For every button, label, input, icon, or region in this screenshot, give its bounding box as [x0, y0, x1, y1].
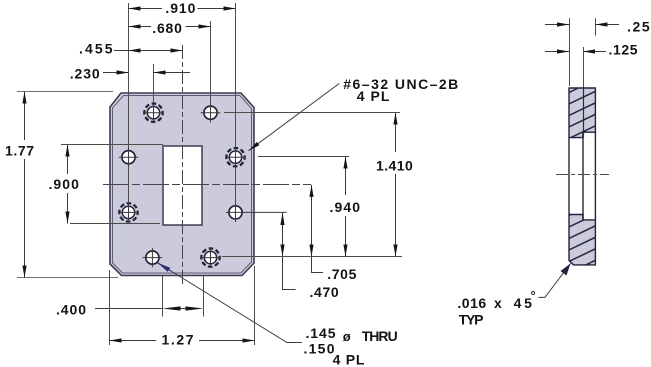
svg-text:x: x — [494, 295, 502, 311]
plain hole low-right — [226, 203, 287, 222]
slot vertical centerline (dashed) — [182, 45, 184, 285]
dimension .400 — [56, 276, 204, 317]
svg-text:45: 45 — [514, 295, 533, 311]
top-right hole column line — [210, 21, 212, 123]
threaded hole top-left — [144, 103, 163, 122]
svg-text:.705: .705 — [327, 266, 356, 282]
horizontal centerline — [103, 184, 311, 186]
svg-text:1.27: 1.27 — [162, 331, 194, 347]
dimension .910 — [129, 0, 236, 16]
leader #6-32 — [249, 76, 459, 151]
dimension .900 — [49, 145, 164, 224]
dimension 1.410 — [224, 113, 413, 257]
top-left hole column line — [153, 64, 155, 123]
svg-text:4 PL: 4 PL — [357, 88, 390, 104]
threaded hole low-left — [119, 203, 138, 222]
svg-text:ø: ø — [343, 329, 351, 344]
side walls middle — [568, 138, 570, 215]
svg-text:1.410: 1.410 — [376, 157, 413, 173]
side view centerline — [556, 174, 609, 176]
left hole column line — [128, 3, 130, 222]
svg-text:4 PL: 4 PL — [333, 352, 365, 367]
svg-text:.145: .145 — [306, 325, 336, 341]
svg-text:.25: .25 — [627, 19, 650, 35]
svg-text:.680: .680 — [152, 20, 182, 36]
leader .016 x 45 TYP — [457, 264, 570, 328]
svg-text:1.77: 1.77 — [5, 142, 34, 158]
svg-text:.910: .910 — [165, 0, 195, 16]
svg-text:.016: .016 — [457, 295, 486, 311]
plain hole bottom-left — [143, 248, 162, 267]
dimension 1.77 — [5, 92, 118, 278]
bottom shared extension line — [222, 256, 402, 258]
plain hole top-right — [201, 103, 220, 122]
dimension .705 — [312, 185, 357, 282]
dimension .230 — [70, 66, 190, 82]
side view flange — [556, 78, 609, 278]
svg-text:.455: .455 — [79, 41, 113, 57]
dimension .470 — [283, 213, 339, 300]
dimension .125 — [545, 42, 638, 138]
svg-text:°: ° — [531, 288, 536, 303]
svg-text:THRU: THRU — [362, 328, 398, 344]
svg-text:.940: .940 — [330, 199, 361, 215]
threaded hole mid-right — [226, 148, 245, 167]
svg-text:.150: .150 — [304, 340, 335, 356]
top block — [569, 88, 595, 138]
svg-text:.470: .470 — [310, 284, 339, 300]
dimension .680 — [129, 20, 211, 36]
svg-text:.230: .230 — [70, 66, 100, 82]
dimension .25 — [545, 18, 650, 86]
plate body (front view) — [110, 93, 254, 276]
svg-text:TYP: TYP — [459, 312, 484, 328]
svg-text:.400: .400 — [56, 301, 86, 317]
dimension .940 — [258, 157, 360, 257]
plain hole mid-left — [119, 148, 138, 167]
bottom block — [569, 215, 595, 265]
leader .145/.150 THRU — [158, 263, 398, 367]
center slot — [163, 146, 202, 225]
svg-text:.900: .900 — [49, 176, 80, 192]
svg-text:.125: .125 — [609, 42, 638, 58]
right hole column line — [235, 3, 237, 222]
dimension 1.27 — [110, 266, 255, 347]
dimension .455 — [79, 41, 183, 57]
threaded hole bottom-right — [201, 248, 220, 267]
